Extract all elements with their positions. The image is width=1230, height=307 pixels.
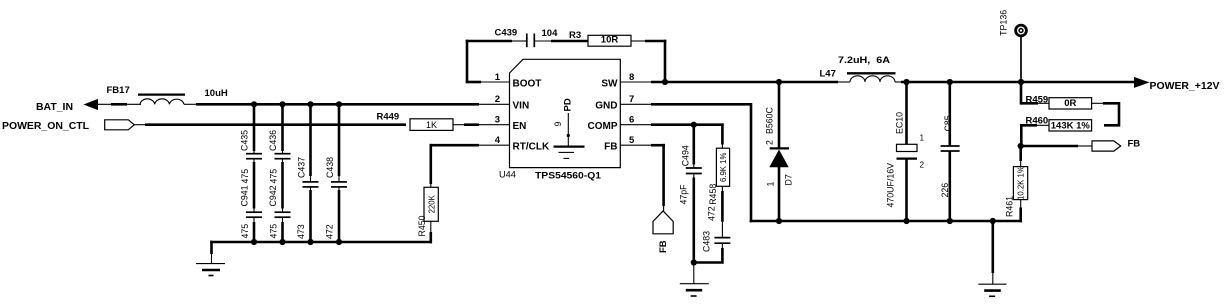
- svg-text:FB: FB: [1128, 139, 1141, 150]
- svg-text:475: 475: [269, 224, 279, 239]
- wire BAT_IN to FB17: [97, 103, 141, 105]
- svg-text:RT/CLK: RT/CLK: [513, 142, 550, 153]
- svg-text:R459: R459: [1026, 94, 1049, 105]
- svg-text:5: 5: [629, 135, 635, 146]
- svg-text:FB: FB: [658, 240, 669, 253]
- svg-text:2: 2: [495, 94, 500, 105]
- resistor R449 1K: [377, 112, 511, 131]
- capacitor C942 475: [268, 159, 291, 244]
- capacitor C483 472: [693, 231, 731, 263]
- svg-text:475: 475: [240, 224, 250, 239]
- svg-text:1: 1: [765, 182, 775, 187]
- svg-text:U44: U44: [499, 169, 516, 179]
- svg-text:C85: C85: [943, 115, 953, 131]
- node VIN junction dots: [251, 101, 342, 107]
- wire GND net from pin 7: [651, 103, 1022, 224]
- wire COMP net: [651, 122, 724, 128]
- svg-text:104: 104: [542, 28, 559, 39]
- IC U44 TPS54560-Q1: [478, 59, 652, 181]
- capacitor C494 47pF: [679, 125, 702, 263]
- svg-text:BOOT: BOOT: [513, 78, 542, 89]
- svg-text:C437: C437: [297, 157, 307, 178]
- svg-text:473: 473: [296, 224, 306, 239]
- svg-text:47pF: 47pF: [679, 184, 689, 205]
- node FB junction: [1018, 143, 1024, 149]
- svg-text:R450: R450: [417, 215, 427, 236]
- svg-text:7.2uH, 6A: 7.2uH, 6A: [838, 55, 890, 66]
- port POWER_ON_CTL: [2, 120, 134, 132]
- port FB right: [1021, 139, 1141, 151]
- svg-text:EN: EN: [513, 121, 527, 132]
- svg-text:0R: 0R: [1064, 98, 1076, 109]
- node comp ground junction: [691, 259, 697, 265]
- ground output bus: [978, 221, 1006, 296]
- capacitor C435 475: [240, 104, 263, 183]
- resistor R458 6.9K 1%: [706, 123, 729, 237]
- svg-text:8: 8: [629, 72, 634, 83]
- capacitor C85 226: [940, 82, 960, 221]
- svg-text:1K: 1K: [426, 120, 437, 130]
- svg-text:TPS54560-Q1: TPS54560-Q1: [535, 170, 602, 181]
- ground PD: [554, 146, 585, 148]
- svg-text:VIN: VIN: [513, 100, 530, 111]
- svg-text:R458: R458: [708, 184, 718, 205]
- svg-text:226: 226: [940, 183, 950, 198]
- svg-text:C942: C942: [268, 185, 278, 206]
- capacitor EC10 470UF/16V: [886, 82, 925, 221]
- resistor R459 0R: [1021, 82, 1119, 125]
- svg-text:6.9K 1%: 6.9K 1%: [719, 153, 728, 183]
- capacitor C941 475: [240, 159, 263, 244]
- svg-text:C941: C941: [240, 185, 250, 206]
- ground input bus: [196, 241, 225, 276]
- resistor R460 143K 1%: [1020, 116, 1092, 146]
- svg-text:SW: SW: [601, 78, 618, 89]
- svg-text:470UF/16V: 470UF/16V: [886, 163, 896, 208]
- svg-text:C438: C438: [325, 157, 335, 178]
- wire EN line: [134, 124, 406, 126]
- ground comp network: [680, 263, 709, 297]
- test point TP136: [999, 10, 1027, 82]
- svg-text:4: 4: [495, 135, 501, 146]
- diode D7 B560C: [764, 82, 793, 221]
- capacitor C439 104: [495, 27, 589, 47]
- svg-text:220K: 220K: [427, 194, 436, 213]
- svg-text:C439: C439: [495, 27, 518, 38]
- svg-text:10.2K 1%: 10.2K 1%: [1017, 166, 1026, 200]
- svg-text:10uH: 10uH: [205, 88, 228, 99]
- svg-text:472: 472: [325, 224, 335, 239]
- svg-text:FB17: FB17: [107, 85, 130, 96]
- port POWER_+12V: [1134, 77, 1220, 92]
- svg-text:R3: R3: [569, 30, 581, 41]
- svg-text:R461: R461: [1004, 196, 1014, 217]
- resistor R450 220K: [417, 187, 438, 243]
- svg-text:L47: L47: [820, 68, 836, 79]
- svg-text:1: 1: [495, 72, 501, 83]
- svg-text:POWER_ON_CTL: POWER_ON_CTL: [2, 120, 90, 132]
- wire BOOT loop left: [466, 40, 527, 82]
- svg-text:B560C: B560C: [764, 106, 774, 134]
- svg-text:PD: PD: [563, 98, 574, 111]
- svg-text:472: 472: [706, 206, 716, 221]
- svg-text:7: 7: [629, 94, 634, 105]
- svg-text:D7: D7: [784, 174, 794, 185]
- svg-text:POWER_+12V: POWER_+12V: [1150, 81, 1220, 92]
- wire +12V output line: [901, 79, 1135, 85]
- svg-text:COMP: COMP: [588, 121, 618, 132]
- svg-text:475: 475: [240, 169, 250, 184]
- svg-text:EC10: EC10: [895, 112, 905, 134]
- svg-text:6: 6: [629, 114, 634, 125]
- svg-text:C435: C435: [240, 130, 250, 151]
- svg-text:2: 2: [920, 161, 925, 170]
- svg-text:3: 3: [495, 114, 500, 125]
- port BAT_IN: [36, 99, 98, 113]
- port FB bottom: [653, 211, 673, 253]
- svg-text:1: 1: [920, 134, 925, 143]
- svg-text:R449: R449: [377, 112, 400, 123]
- wire input ground bus: [210, 239, 432, 245]
- capacitor C438 472: [325, 104, 348, 243]
- svg-text:C483: C483: [702, 231, 712, 252]
- inductor L47 7.2uH 6A: [820, 55, 904, 82]
- svg-text:475: 475: [269, 169, 279, 184]
- wire FB17 to VIN pin 2: [184, 103, 510, 105]
- svg-text:2: 2: [764, 140, 774, 145]
- svg-text:9: 9: [553, 122, 563, 127]
- wire FB pin 5: [651, 144, 665, 212]
- wire RT/CLK to R450: [430, 144, 511, 188]
- svg-text:TP136: TP136: [999, 10, 1009, 36]
- wire SW net: [651, 79, 850, 85]
- svg-text:C494: C494: [681, 145, 691, 166]
- svg-text:143K 1%: 143K 1%: [1051, 120, 1091, 131]
- svg-text:C436: C436: [268, 130, 278, 151]
- resistor R461 10.2K 1%: [1004, 146, 1027, 222]
- inductor FB17 10uH: [107, 85, 228, 104]
- svg-text:10R: 10R: [601, 35, 619, 46]
- svg-text:FB: FB: [604, 142, 617, 153]
- capacitor C437 473: [296, 104, 319, 243]
- svg-text:GND: GND: [595, 100, 617, 111]
- svg-text:BAT_IN: BAT_IN: [36, 101, 73, 113]
- capacitor C436 475: [268, 104, 291, 183]
- resistor R3 10R: [569, 30, 666, 82]
